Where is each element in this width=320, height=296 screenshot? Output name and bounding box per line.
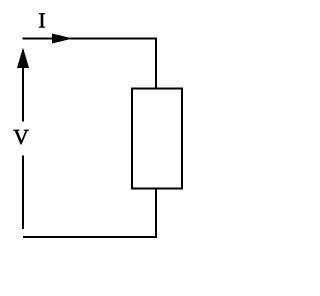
wire right lower: [155, 188, 157, 238]
wire left lower (below V): [22, 156, 24, 230]
wire right upper: [155, 38, 157, 90]
label I: [39, 13, 45, 27]
current arrowhead (I direction): [52, 34, 73, 44]
wire left upper (below arrowhead): [22, 67, 24, 122]
voltage arrowhead (V direction, up): [17, 48, 29, 69]
resistor R (box): [132, 89, 182, 189]
wire bottom horizontal: [23, 236, 157, 238]
wire top horizontal: [23, 38, 158, 40]
label V: [13, 130, 28, 144]
